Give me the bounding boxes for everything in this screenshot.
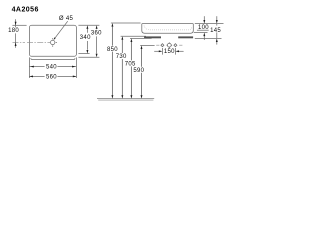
arrow down 340 bbox=[86, 50, 88, 54]
dim line 145 bbox=[216, 24, 218, 39]
svg-text:560: 560 bbox=[46, 75, 57, 81]
arrow right 560 bbox=[73, 75, 77, 77]
arrow down above bbox=[203, 16, 205, 20]
dimension 540 bbox=[29, 57, 76, 78]
arrow up below bbox=[203, 36, 205, 40]
drain connection center bbox=[167, 42, 173, 48]
leader arrowhead bbox=[54, 37, 56, 40]
ext bar right bbox=[174, 48, 176, 55]
svg-text:4A2056: 4A2056 bbox=[12, 7, 39, 14]
arrow down above bbox=[216, 16, 218, 20]
supply connection right (diamond) bbox=[174, 44, 177, 47]
dimension 560 bbox=[29, 75, 76, 81]
countertop section pad left bbox=[144, 36, 161, 38]
dimension line 705 bbox=[125, 38, 136, 98]
arrow left 560 bbox=[29, 75, 33, 77]
arrow up to centerline bbox=[15, 42, 17, 46]
dimension 340 bbox=[78, 25, 91, 53]
dimension 100 bbox=[197, 16, 209, 40]
extension line pad bottom right bbox=[195, 37, 222, 39]
extension line rim top right bbox=[195, 23, 224, 25]
extension line body bottom right bbox=[194, 32, 208, 34]
ext line 360 bottom bbox=[78, 56, 99, 58]
floor hatching bbox=[98, 99, 153, 101]
svg-text:150: 150 bbox=[164, 49, 175, 55]
arrow up 340 bbox=[86, 25, 88, 29]
svg-text:850: 850 bbox=[107, 47, 118, 53]
extension line 590 (trap height) bbox=[140, 44, 154, 46]
svg-text:590: 590 bbox=[133, 68, 144, 74]
centerline through drain bbox=[13, 41, 49, 43]
floor line bbox=[97, 98, 154, 100]
extension line top left bbox=[12, 24, 26, 26]
dimension line 850 bbox=[107, 23, 118, 99]
leader line Ø45 bbox=[54, 21, 68, 39]
arrow up below bbox=[216, 42, 218, 45]
supply connection left (diamond) bbox=[161, 44, 164, 47]
svg-text:180: 180 bbox=[8, 28, 19, 34]
ext line left bbox=[28, 57, 30, 78]
arrow down to top ext bbox=[15, 22, 17, 26]
svg-text:340: 340 bbox=[80, 35, 91, 41]
dim line 180 bbox=[15, 19, 17, 48]
svg-text:360: 360 bbox=[91, 31, 102, 37]
countertop section pad right bbox=[178, 36, 193, 38]
dimension 360 bbox=[78, 25, 102, 57]
drain Ø45 top view bbox=[48, 38, 57, 47]
extension line 705 (pad bottom) bbox=[130, 37, 152, 39]
arrow right into left bar bbox=[154, 50, 159, 52]
arrow up 360 bbox=[96, 25, 98, 29]
ext line 340 bottom bbox=[78, 53, 89, 55]
dimension line 730 bbox=[116, 36, 127, 98]
dimension line 590 bbox=[133, 45, 144, 98]
svg-text:540: 540 bbox=[46, 65, 57, 71]
wall connections centerline bbox=[156, 44, 182, 46]
dim line 540 bbox=[29, 66, 76, 68]
dim line 340 bbox=[86, 29, 88, 50]
svg-text:145: 145 bbox=[210, 28, 221, 34]
front view basin outline bbox=[142, 24, 194, 34]
svg-text:Ø 45: Ø 45 bbox=[59, 16, 74, 22]
arrow left 540 bbox=[30, 66, 34, 68]
top view basin outline bbox=[29, 25, 76, 56]
extension line 730 (pad top) bbox=[121, 35, 146, 37]
arrow down 360 bbox=[96, 54, 98, 58]
arrow left into right bar bbox=[179, 50, 184, 52]
arrow right 540 bbox=[72, 66, 76, 68]
dimension 180 bbox=[8, 19, 27, 48]
dimension 145 bbox=[210, 16, 221, 44]
dim line 560 bbox=[29, 75, 76, 77]
dimension 150 bbox=[154, 48, 183, 55]
dim line 100 underline bbox=[197, 29, 209, 31]
top view lower contour line bbox=[31, 58, 75, 60]
ext bar left bbox=[161, 48, 163, 55]
svg-text:100: 100 bbox=[198, 25, 209, 31]
front view hidden bowl line (dotted) bbox=[144, 26, 191, 30]
svg-text:705: 705 bbox=[125, 62, 136, 68]
extension line top right of top view bbox=[78, 24, 99, 26]
dim line 360 bbox=[96, 29, 98, 54]
extension line 850 (rim height) bbox=[111, 22, 141, 24]
svg-text:730: 730 bbox=[116, 54, 127, 60]
ext line right bbox=[75, 57, 77, 78]
